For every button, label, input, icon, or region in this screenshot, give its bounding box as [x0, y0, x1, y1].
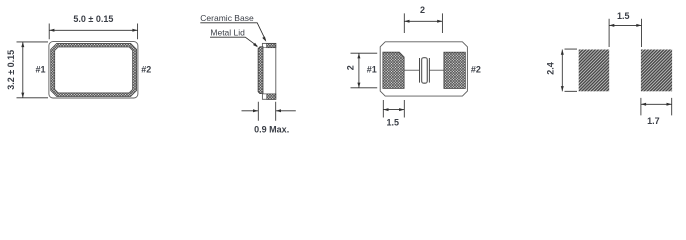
castellation lines (side view) — [262, 48, 266, 94]
package outline (top view) — [49, 42, 138, 98]
svg-text:1.5: 1.5 — [386, 118, 399, 128]
svg-text:#1: #1 — [367, 65, 377, 75]
crystal electrode right — [428, 58, 430, 83]
svg-text:1.5: 1.5 — [617, 11, 630, 21]
metal lid seam ring (crosshatched) — [51, 43, 137, 96]
dimension extension lines (1.7) — [641, 98, 672, 116]
svg-text:0.9 Max.: 0.9 Max. — [254, 125, 289, 135]
dimension extension lines (1.5 bottom) — [383, 100, 404, 118]
svg-text:2.4: 2.4 — [546, 62, 556, 75]
dimension extension lines (1.5 gap) — [609, 19, 641, 47]
svg-text:2: 2 — [346, 65, 356, 70]
dimension line 2.4 — [561, 50, 563, 92]
svg-text:#1: #1 — [35, 65, 45, 75]
crystal electrode left — [419, 58, 421, 83]
dimension line 5.0 — [49, 29, 137, 31]
svg-text:#2: #2 — [471, 65, 481, 75]
pad #2 (bottom view) — [444, 52, 465, 88]
leader line Ceramic Base — [200, 23, 265, 40]
dimension extension lines (0.9) — [258, 102, 275, 121]
svg-text:1.7: 1.7 — [647, 116, 660, 126]
top electrode pad (side view) — [267, 43, 276, 47]
svg-text:5.0 ± 0.15: 5.0 ± 0.15 — [73, 14, 113, 24]
land pad right — [641, 50, 672, 92]
ceramic base body (side view) — [262, 43, 275, 99]
pad #1 (bottom view, chamfered) — [383, 52, 404, 88]
bottom electrode pad (side view) — [267, 94, 276, 99]
dimension extension lines (2 top) — [404, 13, 442, 33]
wire to crystal left — [404, 69, 419, 71]
crystal body — [422, 58, 428, 84]
svg-text:Ceramic Base: Ceramic Base — [200, 13, 254, 23]
dimension line 1.7 — [641, 103, 672, 105]
package outline (bottom view) — [380, 42, 467, 96]
land pad left — [579, 50, 610, 92]
wire to crystal right — [429, 69, 444, 71]
dimension line 1.5 (gap) — [609, 24, 641, 26]
dimension extension lines (2 left) — [351, 53, 378, 88]
dimension extension lines (2.4) — [565, 49, 578, 91]
dimension line 2 (top) — [404, 20, 442, 22]
svg-text:#2: #2 — [141, 65, 151, 75]
dimension line 3.2 — [22, 42, 24, 98]
dimension line 2 (left) — [358, 53, 360, 88]
dimension extension lines (5.0) — [49, 24, 137, 40]
dimension line 1.5 (bottom) — [383, 109, 404, 111]
leader line Metal Lid — [210, 37, 257, 46]
dimension extension lines (3.2) — [17, 42, 49, 98]
svg-text:Metal Lid: Metal Lid — [210, 27, 245, 37]
svg-text:3.2 ± 0.15: 3.2 ± 0.15 — [6, 50, 16, 90]
dimension line 0.9 (arrows outside) — [242, 110, 296, 112]
svg-text:2: 2 — [420, 5, 425, 15]
metal lid strip (side view) — [258, 47, 263, 94]
